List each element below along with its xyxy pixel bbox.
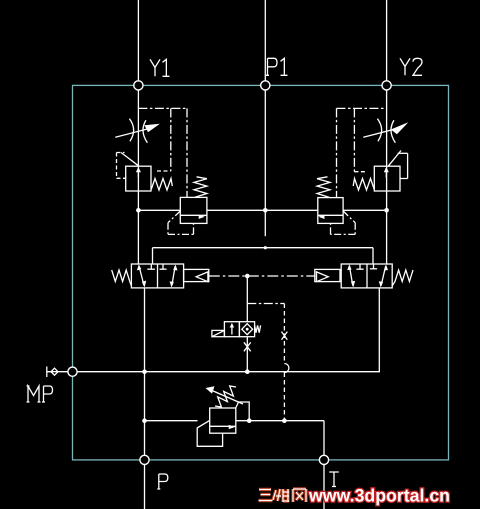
wire Y1 supply line <box>137 0 139 264</box>
wire node-A bus y=210 <box>138 209 386 211</box>
wire T line <box>145 421 325 509</box>
SOL ball seat <box>242 324 253 335</box>
port circles <box>68 81 391 465</box>
directional valve DV1 <box>131 264 183 288</box>
svg-text:www.3dportal.cn: www.3dportal.cn <box>308 486 450 506</box>
pilot dashes RV1 <box>117 153 126 179</box>
wire solenoid feed <box>246 276 248 322</box>
spring SV1 <box>194 177 207 197</box>
port P1 <box>261 81 270 90</box>
DV1 left cell arrows <box>139 266 144 286</box>
solenoid valve SOL <box>224 322 254 337</box>
wire SOL drain <box>246 337 248 372</box>
port Y1 <box>134 81 143 90</box>
pilot lines RV2 <box>388 151 407 179</box>
crossing jump <box>284 364 289 373</box>
DV1 right cell blocked port <box>162 264 164 269</box>
manifold boundary <box>73 85 449 460</box>
port MP <box>68 367 77 376</box>
reducing valve RV1 <box>126 166 151 191</box>
port P <box>140 455 149 464</box>
spring RV2 <box>353 179 374 191</box>
label P <box>157 474 168 489</box>
throttle FC2 <box>363 119 398 143</box>
relief valve RVP <box>210 408 236 433</box>
drain dashes SV1 <box>168 211 194 234</box>
spring RVP <box>215 386 236 407</box>
pilot box DV1 <box>184 269 209 281</box>
sequence valve SV1 <box>180 197 207 223</box>
pilot box DV2 <box>315 269 340 281</box>
pilot branch y=303.5 <box>247 303 284 305</box>
label Y1 <box>150 59 170 76</box>
label T <box>329 472 339 487</box>
wire Y2 supply line <box>386 0 388 264</box>
sequence valve SV2 <box>318 198 343 224</box>
DV2 right cell arrows <box>381 266 386 286</box>
wire DV2 drain <box>73 288 380 372</box>
drain dashes SV2 <box>331 211 356 234</box>
directional valve DV2 <box>341 264 392 288</box>
port T <box>319 455 328 464</box>
watermark <box>259 486 451 506</box>
RVP second box <box>197 420 222 446</box>
spring DV1 <box>112 270 132 286</box>
label P1 <box>266 58 288 75</box>
DV2 left cell arrows <box>349 266 352 286</box>
throttle FC2 dashed bypass <box>337 108 387 197</box>
junction dots <box>136 208 389 423</box>
spring SV2 <box>317 177 330 197</box>
wire dashed drain x=284.4 <box>283 304 285 421</box>
orifice X upper <box>282 332 288 340</box>
SOL coil <box>212 330 225 336</box>
DV2 right cell blocked port <box>373 264 375 269</box>
label MP <box>27 386 53 402</box>
label Y2 <box>400 58 422 75</box>
spring DV2 <box>392 270 413 286</box>
DV2 left cell blocked port <box>359 264 361 269</box>
pilot line between DV1 DV2 <box>209 275 315 277</box>
spring RV1 <box>151 179 172 191</box>
DV1 right cell arrows <box>172 266 175 286</box>
reducing valve RV2 <box>374 166 400 191</box>
wire P1 distribution y=247.7 <box>153 248 374 264</box>
throttle FC1 <box>115 119 150 143</box>
RVP adjust arrow <box>212 391 243 405</box>
wire P1 supply line <box>264 0 266 236</box>
DV1 left cell blocked port <box>150 264 152 269</box>
SOL arrow <box>231 326 233 335</box>
wire DV1 drain to P <box>144 288 146 509</box>
MP gauge symbol <box>47 367 68 378</box>
throttle FC1 dashed bypass <box>138 108 187 197</box>
SOL spring <box>255 325 261 332</box>
orifice X lower <box>244 342 251 351</box>
RVP pilot loop <box>236 402 249 421</box>
port Y2 <box>382 81 391 90</box>
